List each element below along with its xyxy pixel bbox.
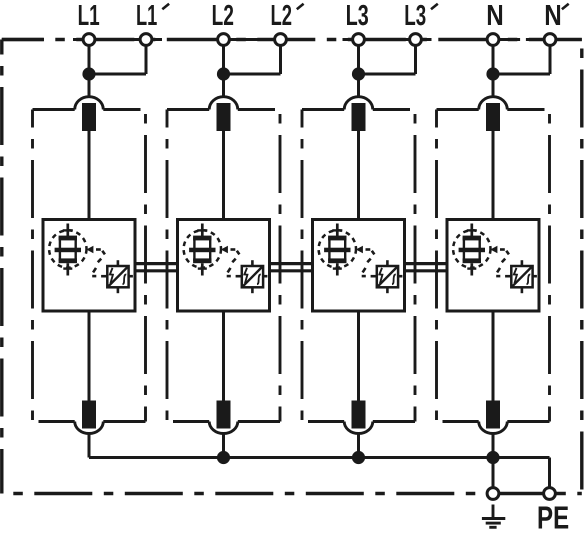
wire L2´ to junction horizontal (224, 73, 281, 76)
spark gap bottom electrode bar (328, 258, 346, 263)
spark gap top lead tick (332, 229, 342, 231)
status indicator / changeover box (module N) (511, 266, 532, 287)
terminal L1´ (140, 34, 152, 46)
encapsulated spark gap (module L1) dashed circle (49, 230, 86, 267)
indicator follow-current symbol (527, 274, 531, 284)
spark gap bottom electrode bar (59, 258, 77, 263)
spark gap bottom lead (336, 263, 339, 275)
spark gap bottom lead tick (198, 267, 207, 269)
spark gap top lead (470, 224, 473, 238)
spark gap bottom lead tick (63, 267, 72, 269)
wire stub left of phase terminal (73, 38, 85, 41)
wire module N element box to bottom disconnector (492, 311, 495, 401)
protection module L2 outline right edge (dash-dot) (279, 110, 282, 422)
mechanical linkage dashes (module L2) (227, 250, 240, 277)
wire module L1 element box to bottom disconnector (88, 311, 91, 401)
indicator surge-symbol (lightning) (379, 268, 382, 283)
wire module N bottom exit to PE bus (492, 434, 495, 458)
spark gap bottom lead tick (467, 267, 476, 269)
wire stub right of primed terminal (285, 38, 297, 41)
label L3´ prime mark (431, 4, 438, 10)
protection element box (module N) (447, 220, 539, 312)
mechanical linkage dashes (module L3) (362, 250, 375, 277)
spark gap middle electrode band (459, 248, 485, 253)
ground symbol stem (492, 505, 495, 519)
label L2 (213, 5, 233, 25)
wire stub left of phase terminal (477, 38, 489, 41)
wire module N disconnector to element box (492, 131, 495, 220)
protection element box (module L1) (43, 220, 135, 312)
wire L1 terminal drop to junction (88, 45, 91, 98)
label N´ (546, 5, 560, 25)
label L2´ (272, 5, 291, 25)
wire stub right of primed terminal (554, 38, 566, 41)
wire top border segment between terminal pair (363, 38, 412, 41)
ground symbol bar 2 (486, 522, 501, 525)
spark gap electrode body (464, 238, 480, 260)
wire N terminal drop to junction (492, 45, 495, 98)
indicator surge-symbol (lightning) (110, 268, 113, 283)
protection element box (module L2) (178, 220, 270, 312)
thermal disconnector bottom (module N) (486, 401, 500, 429)
spark gap top lead (66, 224, 69, 238)
wire L3´ terminal drop (414, 45, 417, 75)
terminal earth (functional) (487, 488, 499, 500)
indicator pins (371, 260, 403, 293)
module N bottom plug-in contact arc (479, 422, 508, 434)
encapsulated spark gap (module N) dashed circle (453, 230, 490, 267)
label L3´ (405, 5, 425, 26)
disconnector trip arrow (module L2) (221, 246, 228, 253)
terminal L3 (353, 34, 365, 46)
wire top border segment between terminal pair (93, 38, 142, 41)
protection module L1 outline left edge (dash-dot) (31, 110, 34, 422)
indicator diagonal (109, 267, 128, 286)
wire bottom PE collecting bus (89, 456, 493, 459)
protection module L2 outline bottom edge (173, 420, 209, 423)
wire N´ to junction horizontal (493, 73, 550, 76)
spark gap middle electrode band (189, 248, 215, 253)
indicator diagonal (513, 267, 532, 286)
label L1´ (137, 5, 157, 25)
spark gap middle electrode band (324, 248, 350, 253)
spark gap bottom lead (201, 263, 204, 275)
encapsulated spark gap (module L2) dashed circle (184, 230, 221, 267)
node bus junction (217, 451, 230, 464)
ground symbol bar 1 (482, 517, 505, 520)
indicator surge-symbol (lightning) (244, 268, 247, 283)
node L1 junction (82, 67, 95, 80)
module L1 bottom plug-in contact arc (75, 422, 104, 434)
wire L3 terminal drop to junction (357, 45, 360, 98)
wire module L1 bottom exit to PE bus (88, 434, 91, 458)
protection element box (module L3) (313, 220, 405, 312)
indicator surge-symbol (lightning) (514, 268, 517, 283)
protection module N outline top edge (437, 108, 479, 111)
spark gap bottom lead (66, 263, 69, 275)
module L3 top plug-in contact arc (344, 97, 373, 110)
spark gap top electrode bar (463, 236, 481, 241)
terminal N´ (544, 34, 556, 46)
label PE (539, 506, 569, 528)
wire ground terminal drop (492, 458, 495, 489)
spark gap electrode body (60, 238, 76, 260)
inter-module bus upper line (L1-L2) (134, 262, 179, 265)
status indicator / changeover box (module L1) (107, 266, 128, 287)
protection module L3 outline bottom edge (308, 420, 344, 423)
indicator pins (505, 260, 537, 293)
thermal disconnector bottom (module L3) (352, 401, 366, 429)
label L1 (79, 5, 99, 25)
wire module L3 bottom exit to PE bus (357, 434, 360, 458)
spark gap bottom lead (470, 263, 473, 275)
disconnector trip arrow (module N) (490, 246, 497, 253)
status indicator / changeover box (module L3) (377, 266, 398, 287)
thermal disconnector bottom (module L2) (217, 401, 231, 429)
spark gap top lead tick (63, 229, 73, 231)
wire L1´ to junction horizontal (89, 73, 146, 76)
module L2 top plug-in contact arc (209, 97, 238, 110)
inter-module bus lower line (L2-L3) (269, 269, 314, 272)
terminal PE (544, 488, 556, 500)
label L3 (347, 5, 368, 26)
module L3 bottom plug-in contact arc (344, 422, 373, 434)
label L1´ prime mark (162, 4, 169, 10)
status indicator / changeover box (module L2) (242, 266, 263, 287)
wire top border segment between terminal pair (497, 38, 510, 41)
node bus junction (352, 451, 365, 464)
wire top border segment right of N´ (555, 38, 582, 41)
module L1 top plug-in contact arc (75, 97, 104, 110)
wire stub left of phase terminal (343, 38, 355, 41)
wire L3´ to junction horizontal (359, 73, 416, 76)
module N top plug-in contact arc (479, 97, 508, 110)
spark gap top lead tick (467, 229, 477, 231)
protection module L3 outline top edge (302, 108, 344, 111)
spark gap top electrode bar (59, 236, 77, 241)
spark gap bottom electrode bar (463, 258, 481, 263)
terminal L2´ (275, 34, 287, 46)
wire top border segment between terminal pair (228, 38, 277, 41)
wire stub right of primed terminal (150, 38, 162, 41)
ground symbol bar 3 (489, 526, 496, 529)
wire L2 terminal drop to junction (222, 45, 225, 98)
node N junction (486, 67, 499, 80)
protection module N outline bottom edge (443, 420, 479, 423)
indicator diagonal (378, 267, 397, 286)
label L2´ prime mark (297, 4, 304, 10)
wire between ground and PE terminals (499, 492, 544, 495)
spark gap middle electrode band (55, 248, 81, 253)
wire L1´ terminal drop (145, 45, 148, 75)
thermal disconnector top (module L1) (82, 103, 96, 131)
disconnector trip arrow (module L1) (86, 246, 93, 253)
indicator follow-current symbol (257, 274, 261, 284)
thermal disconnector top (module L3) (352, 103, 366, 131)
protection module L1 outline right edge (dash-dot) (144, 110, 147, 422)
wire module L2 element box to bottom disconnector (222, 311, 225, 401)
protection module L2 outline left edge (dash-dot) (166, 110, 169, 422)
wire module L1 disconnector to element box (88, 131, 91, 220)
spark gap electrode body (329, 238, 345, 260)
thermal disconnector top (module L2) (217, 103, 231, 131)
indicator pins (101, 260, 133, 293)
module L2 bottom plug-in contact arc (209, 422, 238, 434)
spark gap bottom lead tick (333, 267, 342, 269)
wire module L2 bottom exit to PE bus (222, 434, 225, 458)
spark gap top lead (336, 224, 339, 238)
protection module N outline right edge (dash-dot) (548, 110, 551, 422)
indicator pins (236, 260, 268, 293)
protection module L1 outline top edge (33, 108, 75, 111)
wire bus to PE corner (493, 456, 550, 459)
mechanical linkage dashes (module L1) (92, 250, 105, 277)
inter-module bus lower line (L1-L2) (134, 269, 179, 272)
inter-module bus lower line (L3-N) (404, 269, 449, 272)
indicator follow-current symbol (392, 274, 396, 284)
encapsulated spark gap (module L3) dashed circle (319, 230, 356, 267)
spark gap top electrode bar (193, 236, 211, 241)
inter-module bus upper line (L2-L3) (269, 262, 314, 265)
indicator diagonal (243, 267, 262, 286)
terminal L3´ (410, 34, 422, 46)
wire module L3 element box to bottom disconnector (357, 311, 360, 401)
spark gap top lead (201, 224, 204, 238)
terminal N (487, 34, 499, 46)
terminal L2 (218, 34, 230, 46)
inter-module bus upper line (L3-N) (404, 262, 449, 265)
protection module L3 outline right edge (dash-dot) (414, 110, 417, 422)
wire stub left of phase terminal (208, 38, 220, 41)
disconnector trip arrow (module L3) (356, 246, 363, 253)
protection module L1 outline bottom edge (39, 420, 75, 423)
protection module L3 outline left edge (dash-dot) (301, 110, 304, 422)
spark gap top lead tick (197, 229, 207, 231)
thermal disconnector bottom (module L1) (82, 401, 96, 429)
wire top border segment left of L1 (2, 38, 44, 41)
wire module L3 disconnector to element box (357, 131, 360, 220)
protection module L2 outline top edge (167, 108, 209, 111)
protection module N outline left edge (dash-dot) (435, 110, 438, 422)
label N´ prime mark (562, 4, 569, 10)
node L2 junction (217, 67, 230, 80)
spark gap bottom electrode bar (193, 258, 211, 263)
wire L2´ terminal drop (279, 45, 282, 75)
indicator follow-current symbol (123, 274, 127, 284)
node bus junction (486, 451, 499, 464)
wire N´ terminal drop (549, 45, 552, 75)
spark gap electrode body (194, 238, 210, 260)
terminal L1 (83, 34, 95, 46)
mechanical linkage dashes (module N) (496, 250, 509, 277)
node L3 junction (352, 67, 365, 80)
spark gap top electrode bar (328, 236, 346, 241)
wire stub right of primed terminal (420, 38, 432, 41)
label N (488, 5, 502, 25)
wire module L2 disconnector to element box (222, 131, 225, 220)
thermal disconnector top (module N) (486, 103, 500, 131)
